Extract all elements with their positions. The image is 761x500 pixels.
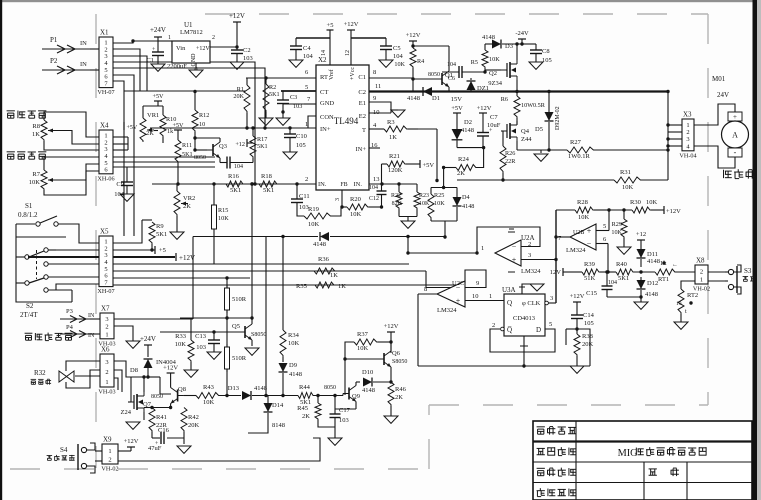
svg-text:2200uF: 2200uF bbox=[167, 63, 187, 70]
transistor Q7 Z24 bbox=[128, 392, 144, 412]
wire Q1 collector bbox=[448, 46, 450, 71]
wire S2 pole1 to X5 pin2 bbox=[48, 249, 99, 251]
potentiometer VR2 2K bbox=[174, 191, 188, 216]
wire U2B minus pin6 bbox=[596, 243, 608, 245]
dashed frame bottom-left bbox=[10, 468, 429, 470]
ground C1 bbox=[151, 64, 165, 71]
resistor R11 5K1 bbox=[175, 140, 181, 163]
svg-text:IN.: IN. bbox=[354, 181, 363, 188]
svg-text:Q9: Q9 bbox=[352, 393, 360, 400]
svg-text:D2: D2 bbox=[464, 119, 472, 126]
svg-text:Q6: Q6 bbox=[392, 350, 401, 357]
wire X5 row5 bus bbox=[113, 270, 426, 272]
svg-text:4148: 4148 bbox=[461, 127, 474, 134]
capacitor C16 47uF bbox=[161, 432, 164, 444]
wire X5 row3 +12V bbox=[113, 256, 175, 258]
svg-text:R37: R37 bbox=[357, 331, 369, 338]
svg-text:+Vcc: +Vcc bbox=[350, 67, 356, 80]
svg-text:5K1: 5K1 bbox=[182, 151, 193, 158]
svg-text:Q2: Q2 bbox=[489, 70, 497, 77]
svg-text:3: 3 bbox=[686, 136, 689, 143]
svg-text:3: 3 bbox=[105, 316, 108, 323]
switch S2 pole1 bbox=[25, 255, 29, 259]
resistor R37 10K bbox=[354, 339, 378, 345]
capacitor C4 104 bbox=[295, 38, 297, 46]
wire R15 bottom bbox=[213, 237, 215, 264]
svg-text:3: 3 bbox=[528, 252, 531, 259]
svg-text:+5V: +5V bbox=[172, 122, 184, 129]
wire R3 drop bbox=[418, 128, 437, 130]
resistor R29 10K bbox=[623, 210, 625, 219]
svg-text:S1: S1 bbox=[25, 202, 33, 210]
transistor Q5 S8050 bbox=[239, 324, 252, 340]
resistor R22 82K bbox=[398, 184, 400, 192]
wire IN- right stub bbox=[369, 183, 417, 185]
svg-text:C1: C1 bbox=[358, 74, 366, 81]
wire C2 pin11 main bus bbox=[369, 90, 669, 92]
svg-text:CD4013: CD4013 bbox=[513, 315, 535, 322]
svg-text:D1: D1 bbox=[432, 95, 440, 102]
pushbutton S3 bbox=[708, 271, 725, 273]
svg-text:D13: D13 bbox=[228, 385, 239, 392]
power +12V Q6 bbox=[387, 331, 395, 333]
resistor R40 5K1 bbox=[616, 269, 634, 275]
svg-text:R38: R38 bbox=[582, 333, 593, 340]
diode D7 4148 bbox=[320, 232, 329, 241]
svg-text:3: 3 bbox=[335, 198, 341, 201]
svg-text:14: 14 bbox=[321, 50, 327, 56]
resistor R46 2K bbox=[388, 382, 394, 406]
wire U2A plus bbox=[521, 259, 556, 261]
svg-text:10: 10 bbox=[676, 301, 682, 307]
wire Q7 source down bbox=[143, 412, 145, 420]
svg-text:M01: M01 bbox=[712, 75, 726, 83]
wire R24 feed bbox=[443, 168, 445, 188]
svg-text:1W0.1R: 1W0.1R bbox=[568, 153, 591, 160]
wire Q4 source bbox=[516, 141, 518, 150]
wire Q9 base bbox=[342, 394, 344, 396]
left page border bbox=[0, 0, 2, 500]
svg-text:4148: 4148 bbox=[462, 203, 474, 210]
svg-text:C13: C13 bbox=[195, 333, 206, 340]
wire VR1 wiper net bbox=[154, 130, 158, 132]
connector X4 XH-06 bbox=[97, 122, 114, 183]
wire Q5 base rail bbox=[160, 331, 239, 333]
transistor Q6 S8050 bbox=[378, 351, 391, 367]
svg-text:IN+: IN+ bbox=[320, 126, 331, 133]
thermistor RT1 1k bbox=[655, 269, 676, 275]
svg-text:10W0.5R: 10W0.5R bbox=[521, 102, 546, 109]
resistor R16 5K1 bbox=[226, 181, 244, 187]
svg-text:9: 9 bbox=[476, 280, 479, 287]
svg-text:9: 9 bbox=[373, 95, 376, 102]
svg-text:5: 5 bbox=[549, 321, 552, 328]
svg-text:103: 103 bbox=[196, 344, 206, 351]
svg-text:C6: C6 bbox=[448, 76, 455, 82]
svg-text:12: 12 bbox=[345, 50, 351, 56]
wire X7 pin3 stub bbox=[90, 318, 100, 320]
title text 日期 bbox=[649, 469, 657, 475]
svg-text:Q: Q bbox=[507, 299, 512, 307]
svg-text:1: 1 bbox=[168, 35, 171, 41]
svg-text:R25: R25 bbox=[434, 192, 444, 199]
wire X5 row7 bus bbox=[113, 284, 460, 286]
svg-text:S8050: S8050 bbox=[392, 359, 407, 365]
resistor 510R lower bbox=[225, 344, 230, 372]
ground RT2 bbox=[674, 322, 688, 329]
capacitor C8 105 bbox=[522, 43, 536, 45]
wire vertical bus x252 bbox=[251, 184, 253, 318]
wire Q1 emitter bbox=[448, 87, 450, 92]
svg-text:120K: 120K bbox=[388, 167, 403, 174]
svg-text:8050: 8050 bbox=[151, 394, 163, 400]
diode D9 4148 bbox=[282, 357, 284, 362]
ground C5 bbox=[379, 60, 393, 67]
wire Q7 gate bbox=[128, 401, 131, 403]
wire X6 pin2 right bbox=[114, 370, 122, 392]
wire C15 bottom bbox=[607, 296, 641, 298]
capacitor C9 104 bbox=[126, 167, 128, 182]
wire E1 pin9 bbox=[369, 102, 391, 110]
svg-text:DZ1: DZ1 bbox=[477, 85, 489, 92]
svg-text:R18: R18 bbox=[261, 173, 272, 180]
wire U2C plus bbox=[465, 300, 504, 302]
svg-text:R6: R6 bbox=[501, 96, 508, 103]
wire R38 link bbox=[577, 329, 590, 366]
svg-text:X2: X2 bbox=[318, 56, 327, 64]
svg-text:R17: R17 bbox=[257, 136, 267, 143]
wire R37 left leg bbox=[345, 342, 354, 395]
svg-text:1k: 1k bbox=[167, 128, 174, 135]
svg-text:10K: 10K bbox=[578, 214, 590, 221]
wire R25 D4 bottom bbox=[430, 219, 432, 221]
dashed frame right bbox=[707, 14, 709, 405]
svg-text:X5: X5 bbox=[100, 228, 109, 236]
svg-text:D10: D10 bbox=[362, 369, 373, 376]
svg-text:2T/4T: 2T/4T bbox=[20, 311, 38, 319]
resistor R45 2K bbox=[317, 396, 319, 404]
connector X3 VH-04 bbox=[679, 111, 696, 160]
svg-text:R2: R2 bbox=[269, 84, 276, 91]
svg-text:4148: 4148 bbox=[254, 385, 267, 392]
transistor Q2 9Z34 bbox=[501, 60, 517, 80]
wire X3 pin4 bbox=[668, 145, 682, 147]
svg-text:5: 5 bbox=[305, 84, 308, 91]
svg-text:C15: C15 bbox=[586, 290, 597, 297]
svg-text:10K: 10K bbox=[288, 340, 300, 347]
resistor R12 10 bbox=[192, 110, 198, 132]
svg-text:C2: C2 bbox=[358, 89, 366, 96]
arrow P2 bbox=[42, 69, 90, 71]
wire CON pin bbox=[308, 116, 316, 128]
svg-text:P1: P1 bbox=[50, 36, 58, 44]
label 电压控制 bbox=[7, 111, 15, 118]
svg-text:104: 104 bbox=[234, 164, 243, 170]
capacitor C15 104 bbox=[606, 272, 608, 286]
wire S4 to X9 bbox=[95, 450, 102, 452]
svg-text:IN.: IN. bbox=[318, 181, 327, 188]
wire R8 wiper bbox=[55, 131, 99, 145]
wire GND pin bbox=[283, 103, 304, 105]
label 手开 bbox=[743, 276, 749, 281]
svg-text:5: 5 bbox=[603, 223, 606, 230]
svg-text:13: 13 bbox=[373, 176, 380, 183]
ground Q4 bbox=[540, 150, 542, 153]
wire X7 pin3 right bbox=[114, 318, 193, 320]
svg-text:20K: 20K bbox=[582, 341, 594, 348]
svg-text:4148: 4148 bbox=[313, 241, 326, 248]
wire D7 line bbox=[283, 236, 318, 238]
top grey strip bbox=[0, 0, 761, 2]
svg-text:D14: D14 bbox=[272, 402, 284, 409]
svg-text:X6: X6 bbox=[101, 346, 110, 354]
wire X1 pin5 bus bbox=[113, 68, 265, 128]
svg-text:+5V: +5V bbox=[451, 105, 463, 112]
svg-text:C7: C7 bbox=[490, 114, 498, 121]
U2C feedback bbox=[465, 270, 486, 288]
svg-text:R43: R43 bbox=[203, 384, 214, 391]
svg-text:C12: C12 bbox=[369, 196, 379, 202]
svg-text:C8: C8 bbox=[542, 48, 550, 55]
capacitor C11 103 bbox=[296, 184, 298, 199]
wire CT pin bbox=[281, 90, 316, 92]
svg-text:+12V: +12V bbox=[406, 32, 421, 39]
svg-text:R21: R21 bbox=[389, 153, 400, 160]
dashed frame top bbox=[205, 13, 708, 15]
svg-text:104: 104 bbox=[393, 53, 404, 60]
wire Q3 collector bbox=[219, 138, 221, 142]
svg-text:R15: R15 bbox=[218, 207, 228, 214]
svg-text:VR1: VR1 bbox=[147, 112, 159, 119]
svg-text:4148: 4148 bbox=[645, 291, 658, 298]
wire 510R top bbox=[226, 278, 228, 288]
svg-text:+: + bbox=[733, 113, 737, 121]
connector X9 VH-02 bbox=[101, 436, 118, 473]
svg-text:C10: C10 bbox=[296, 133, 307, 140]
resistor R43 10K bbox=[184, 395, 196, 397]
wire D2 C7 rail bbox=[457, 147, 484, 149]
svg-text:P3: P3 bbox=[66, 308, 73, 315]
title block column line bbox=[575, 421, 577, 500]
wire D8 junction bbox=[131, 376, 148, 378]
svg-text:1: 1 bbox=[105, 331, 108, 338]
title block date col line a bbox=[643, 462, 645, 500]
svg-text:12V: 12V bbox=[550, 269, 562, 276]
ground Q5 bbox=[245, 348, 259, 355]
svg-text:MIG: MIG bbox=[618, 448, 639, 459]
wire X6 pin3 right bbox=[114, 361, 131, 377]
svg-text:10K: 10K bbox=[489, 56, 500, 63]
svg-text:D12: D12 bbox=[647, 280, 658, 287]
label 慢送丝控制 bbox=[25, 333, 33, 340]
svg-text:10K: 10K bbox=[357, 345, 369, 352]
svg-text:8148: 8148 bbox=[272, 422, 285, 429]
wire Q4 gate bbox=[501, 130, 503, 132]
dashed frame step bbox=[428, 405, 430, 469]
wire Q2 source bbox=[516, 80, 518, 92]
resistor R44 5K1 bbox=[298, 393, 314, 399]
svg-text:4148: 4148 bbox=[647, 258, 660, 265]
ground C4 bbox=[289, 60, 303, 67]
svg-text:R16: R16 bbox=[228, 173, 240, 180]
svg-text:2: 2 bbox=[305, 176, 308, 183]
connector X1 VH-07 bbox=[97, 29, 114, 97]
svg-text:R46: R46 bbox=[395, 386, 407, 393]
svg-text:10: 10 bbox=[199, 121, 205, 128]
svg-text:4148: 4148 bbox=[407, 95, 420, 102]
svg-text:1: 1 bbox=[105, 379, 108, 386]
svg-text:20K: 20K bbox=[233, 93, 244, 100]
CD4013 bottom pin bbox=[523, 336, 525, 366]
connector X6 VH-03 bbox=[98, 346, 115, 396]
svg-text:RT2: RT2 bbox=[687, 292, 698, 299]
wire 510R lower top bbox=[226, 318, 228, 347]
wire X3 pin2 bbox=[668, 131, 682, 133]
svg-text:R34: R34 bbox=[288, 332, 300, 339]
wire U2A out line bbox=[408, 252, 477, 254]
svg-text:5K1: 5K1 bbox=[156, 231, 167, 238]
capacitor C10 105 bbox=[284, 134, 296, 138]
svg-text:E2: E2 bbox=[359, 113, 366, 120]
svg-text:2: 2 bbox=[105, 324, 108, 331]
ground X7 bbox=[126, 341, 140, 348]
svg-text:2: 2 bbox=[212, 35, 215, 41]
svg-text:-: - bbox=[734, 148, 737, 157]
svg-text:C1: C1 bbox=[146, 57, 154, 64]
svg-text:C14: C14 bbox=[583, 312, 595, 319]
svg-text:D9: D9 bbox=[289, 362, 297, 369]
svg-text:+12V: +12V bbox=[666, 208, 681, 215]
wire +24V to U1 bbox=[158, 40, 172, 42]
wire E2 pin10 bbox=[369, 112, 391, 114]
U2A feedback loop bbox=[477, 227, 540, 253]
wire X1 pin1 to +24V rail bbox=[113, 41, 158, 43]
wire Q7 drain up bbox=[143, 377, 145, 392]
svg-text:+24V: +24V bbox=[140, 335, 156, 343]
svg-text:2: 2 bbox=[105, 369, 108, 376]
svg-text:+: + bbox=[512, 256, 517, 265]
svg-text:103: 103 bbox=[339, 417, 349, 424]
potentiometer VR1 2K bbox=[140, 118, 154, 142]
svg-text:R33: R33 bbox=[175, 333, 186, 340]
diode D14 4148 bbox=[267, 396, 269, 404]
wire Q6 emitter to R46 bbox=[390, 367, 392, 382]
svg-text:R41: R41 bbox=[156, 414, 167, 421]
capacitor C5 104 bbox=[385, 38, 387, 46]
title block date col line b bbox=[686, 462, 688, 500]
arrow P1 bbox=[42, 48, 90, 50]
title block row line 2 bbox=[533, 461, 752, 463]
power +12V R30 bbox=[663, 206, 665, 214]
svg-text:+12: +12 bbox=[235, 141, 245, 148]
svg-text:VH-07: VH-07 bbox=[97, 89, 114, 96]
op-amp U2A bbox=[495, 240, 521, 266]
ground U1 bbox=[189, 70, 203, 77]
svg-text:510R: 510R bbox=[232, 355, 247, 362]
ground CD4013 top bbox=[530, 284, 544, 291]
wire Q1 base bbox=[413, 78, 436, 80]
svg-text:Vref: Vref bbox=[328, 69, 335, 80]
resistor R21 120K bbox=[387, 161, 406, 167]
resistor R19 10K bbox=[304, 213, 332, 219]
wire X1 pin3 right bbox=[113, 56, 147, 91]
diode D3 4148 bbox=[485, 43, 492, 45]
ground C3 bbox=[276, 118, 290, 125]
wire Q4 drain bbox=[516, 121, 518, 125]
power +12V X9 bbox=[118, 450, 131, 452]
zener DZ1 15V bbox=[467, 81, 476, 90]
resistor R28 10K bbox=[556, 209, 575, 211]
wire S1 left leg bbox=[16, 224, 72, 302]
svg-text:2: 2 bbox=[492, 322, 495, 329]
svg-text:+12V: +12V bbox=[163, 365, 178, 372]
svg-text:1K: 1K bbox=[338, 283, 346, 290]
svg-text:4148: 4148 bbox=[289, 371, 302, 378]
resistor R35 1K bbox=[315, 282, 335, 288]
svg-text:D92M-02: D92M-02 bbox=[555, 106, 561, 130]
svg-text:10K: 10K bbox=[419, 201, 430, 207]
title block frame bbox=[533, 421, 752, 500]
power +5V D2 bbox=[453, 112, 461, 114]
power +12V R4 bbox=[409, 40, 417, 42]
svg-text:R35: R35 bbox=[296, 283, 307, 290]
capacitor C13 103 bbox=[213, 332, 215, 340]
svg-text:P2: P2 bbox=[50, 57, 58, 65]
svg-text:11: 11 bbox=[375, 83, 381, 90]
svg-text:R42: R42 bbox=[188, 414, 199, 421]
resistor R5 10K bbox=[484, 44, 486, 50]
resistor R15 10K bbox=[212, 202, 217, 232]
wire X4 row3 right bbox=[113, 166, 215, 168]
right grey edge bbox=[757, 0, 761, 500]
svg-text:R24: R24 bbox=[458, 156, 470, 163]
svg-text:RT1: RT1 bbox=[658, 276, 669, 283]
svg-text:+24V: +24V bbox=[150, 26, 166, 34]
svg-text:Z44: Z44 bbox=[521, 136, 532, 143]
svg-text:10K: 10K bbox=[175, 341, 187, 348]
motor plus terminal bbox=[728, 112, 742, 121]
svg-text:VH-02: VH-02 bbox=[101, 466, 118, 473]
wire IN+ pin bbox=[150, 127, 316, 129]
resistor R23 10K bbox=[416, 184, 418, 192]
svg-text:0.8/1.2: 0.8/1.2 bbox=[18, 211, 38, 219]
wire 12V input bbox=[562, 268, 564, 276]
svg-text:LM324: LM324 bbox=[437, 307, 457, 314]
resistor R6 10W0.5R bbox=[516, 92, 518, 97]
wire X1 pin2 right bbox=[113, 49, 140, 91]
capacitor C14 105 bbox=[571, 315, 583, 319]
wire U2C out pin8 bbox=[418, 293, 437, 295]
motor minus terminal bbox=[728, 148, 742, 157]
connector X7 VH-03 bbox=[98, 305, 115, 348]
dashed frame bottom-right bbox=[429, 404, 708, 406]
wire R44 right bbox=[314, 395, 343, 397]
svg-text:D: D bbox=[536, 326, 541, 334]
potentiometer R8 1K bbox=[41, 120, 55, 141]
svg-text:X8: X8 bbox=[696, 257, 705, 265]
power +5V R21 bbox=[406, 163, 420, 165]
svg-text:10K: 10K bbox=[350, 211, 362, 218]
svg-text:R3: R3 bbox=[387, 119, 395, 126]
ground VR2 bbox=[170, 232, 184, 239]
svg-text:Vin: Vin bbox=[176, 45, 186, 52]
svg-text:5K1: 5K1 bbox=[257, 143, 268, 150]
svg-text:10K: 10K bbox=[218, 215, 229, 222]
wire X9 pin2 bus bbox=[118, 438, 320, 461]
wire Q6 collector bbox=[390, 342, 392, 351]
wire X4 row2 right bbox=[113, 161, 215, 163]
svg-text:R31: R31 bbox=[620, 169, 631, 176]
